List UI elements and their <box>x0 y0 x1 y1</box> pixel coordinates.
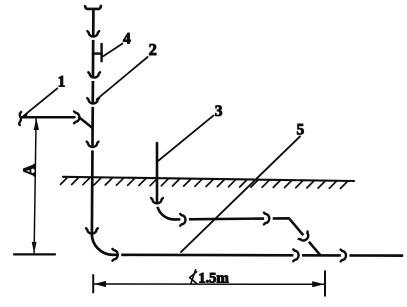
svg-text:A: A <box>19 163 38 176</box>
bell on branch after elbow (vertex right) <box>180 219 189 221</box>
bell at stack end of branch (vertex right) <box>74 111 79 123</box>
dimension A bottom arrowhead <box>32 242 37 254</box>
bell on stack (2nd) <box>93 79 95 82</box>
hub squiggle at left end of branch <box>19 112 21 125</box>
svg-text:1.5m: 1.5m <box>198 271 229 287</box>
ground hatching <box>61 177 349 189</box>
leader line 2 <box>97 57 148 99</box>
bell on stack (bottom, above elbow) <box>86 228 98 233</box>
arrowhead of leader 1 <box>22 112 28 117</box>
dimension left arrowhead <box>94 281 106 287</box>
fixture branch pipe, item 1 <box>22 117 92 127</box>
leader line 3 <box>158 115 214 161</box>
ground line <box>63 177 354 181</box>
svg-text:2: 2 <box>149 40 157 59</box>
svg-text:4: 4 <box>123 31 131 48</box>
svg-text:3: 3 <box>215 103 223 120</box>
svg-text:1: 1 <box>58 74 66 91</box>
vent cap at top of stack <box>85 6 101 9</box>
bell on buried branch (vertex right) <box>264 218 273 220</box>
stack pipe (vertical soil stack with bottom elbow) <box>92 9 113 255</box>
leader line 4 <box>103 44 122 57</box>
datum line under dimension A <box>14 253 55 255</box>
buried main drain pipe <box>113 253 402 257</box>
dimension right tick <box>324 271 326 296</box>
bell on stack (4th) <box>92 148 94 151</box>
dimension A top arrowhead <box>34 118 39 130</box>
svg-text:5: 5 <box>297 122 305 139</box>
bell on stack (3rd) <box>92 104 94 107</box>
bell on diagonal drop (vertex down-right) <box>303 235 309 242</box>
bell on main after elbow (vertex right) <box>119 254 122 256</box>
cleanout clamp, item 4 <box>93 44 102 61</box>
dimension A vertical line <box>34 119 36 253</box>
floor drain riser, item 3 <box>157 143 174 219</box>
dimension left tick <box>92 275 94 292</box>
not-less-than symbol <box>190 270 197 284</box>
buried branch pipe to corner <box>174 218 320 255</box>
bell on main right (vertex right) <box>341 255 350 257</box>
bell on main mid (vertex right) <box>293 254 302 256</box>
bell on riser (vertex down) <box>156 204 158 207</box>
leader line 5 <box>181 136 300 252</box>
leader line 1 <box>23 88 57 116</box>
dimension right arrowhead <box>312 281 324 287</box>
dimension line 1.5m <box>93 283 325 285</box>
bell on stack (top) <box>92 37 94 40</box>
